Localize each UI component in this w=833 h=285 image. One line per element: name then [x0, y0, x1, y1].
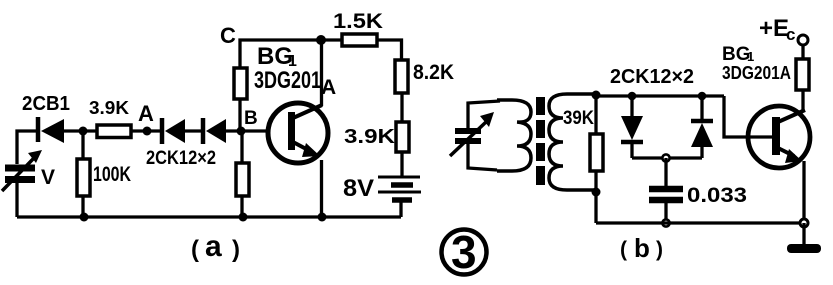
resistor collector (b)	[796, 59, 809, 90]
wire resistor to B	[238, 99, 241, 131]
diode D2 (2CK12 first)	[162, 118, 185, 144]
wire 39K top	[594, 96, 597, 134]
svg-text:3DG201A: 3DG201A	[722, 63, 791, 83]
svg-text:2CK12×2: 2CK12×2	[146, 148, 216, 169]
svg-text:100K: 100K	[93, 163, 131, 186]
node emitter / ground junction	[800, 219, 808, 227]
wire node C corner and down	[240, 40, 398, 68]
svg-text:+E: +E	[759, 15, 789, 42]
svg-text:A: A	[138, 101, 154, 126]
diode (b) right, pointing up	[691, 96, 713, 158]
wire: below capacitor V down to bottom rail	[15, 182, 18, 217]
node A	[143, 127, 152, 136]
transformer secondary winding	[549, 94, 596, 190]
node right diode top	[698, 92, 707, 101]
resistor (B to ground branch)	[236, 163, 249, 196]
diode (b) left, pointing down	[621, 96, 643, 158]
wire top rail corner to base	[724, 96, 773, 137]
wire diode to node B and transistor base	[226, 129, 269, 132]
wire 8.2K to 3.9K	[400, 93, 403, 122]
wire to ground	[802, 223, 805, 245]
wire below var cap (b)	[468, 143, 497, 170]
wire middle to capacitor	[664, 158, 667, 186]
wire B down to lower resistor	[240, 131, 243, 163]
resistor 3.9K (right branch)	[396, 122, 409, 152]
svg-text:(: (	[620, 238, 627, 261]
wire middle (diode bottoms)	[632, 156, 702, 159]
wire: variable capacitor branch top (b)	[468, 101, 500, 128]
svg-text:V: V	[41, 166, 55, 189]
wire battery to bottom rail	[399, 202, 402, 217]
svg-text:39K: 39K	[563, 108, 594, 129]
node junction (100K top)	[79, 127, 88, 136]
svg-text:3: 3	[451, 226, 477, 278]
wire lower resistor to bottom rail	[240, 196, 243, 217]
node secondary top / 39K	[592, 91, 601, 100]
wire 100K branch top	[81, 131, 84, 159]
capacitor V (variable, circuit a) plates	[5, 168, 35, 180]
svg-text:1.5K: 1.5K	[333, 10, 383, 33]
node left diode top	[628, 92, 637, 101]
top rail circuit (b)	[596, 94, 724, 97]
resistor 39K	[590, 134, 603, 171]
diode 2CB1	[38, 117, 64, 143]
svg-text:8V: 8V	[343, 175, 374, 202]
arrow of variable capacitor (b)	[450, 112, 494, 156]
wire Ec to resistor	[801, 45, 804, 59]
transistor BG1 (circuit a)	[268, 103, 328, 163]
wire capacitor to bottom rail	[664, 203, 667, 223]
node capacitor bottom	[662, 219, 669, 226]
svg-text:c: c	[786, 25, 795, 44]
node secondary bottom junction	[592, 188, 601, 197]
resistor 1.5K	[342, 34, 377, 46]
transformer primary winding	[497, 100, 531, 171]
node bottom 100K	[80, 213, 89, 222]
figure number circle	[442, 230, 487, 275]
wire 3.9K to battery	[400, 152, 403, 177]
wire: left loop top of circuit (a)	[17, 131, 38, 164]
resistor 3.9k (horizontal)	[97, 125, 131, 138]
svg-text:3DG201: 3DG201	[254, 67, 321, 94]
wire: diode 2CB1 to resistor 3.9k	[64, 129, 97, 132]
battery 8V	[378, 177, 421, 200]
wire 3.9k to node A	[131, 129, 162, 132]
svg-text:): )	[656, 238, 663, 261]
wire between diodes	[185, 129, 203, 132]
node bottom B resistor	[239, 213, 248, 222]
svg-text:(: (	[191, 236, 199, 263]
resistor 100K	[77, 159, 90, 196]
wire emitter down (b)	[802, 161, 805, 223]
wire 100K branch bottom	[81, 196, 84, 217]
arrow of variable capacitor V	[2, 150, 42, 191]
svg-text:2CK12×2: 2CK12×2	[610, 66, 694, 88]
transformer core	[536, 97, 545, 185]
capacitor variable (b) plates	[455, 131, 481, 141]
bottom rail circuit (a)	[17, 215, 401, 218]
svg-text:3.9K: 3.9K	[89, 98, 129, 118]
wire right branch down from top rail	[398, 40, 402, 60]
resistor (C to B branch)	[234, 68, 247, 99]
node: top rail junction (collector)	[316, 35, 326, 45]
svg-text:3.9K: 3.9K	[344, 126, 396, 148]
node capacitor top junction	[662, 154, 669, 161]
svg-text:a: a	[205, 230, 222, 263]
node bottom emitter	[318, 213, 327, 222]
svg-text:0.033: 0.033	[687, 184, 747, 207]
capacitor 0.033	[649, 189, 683, 200]
svg-text:B: B	[244, 108, 258, 129]
svg-text:C: C	[220, 23, 236, 48]
svg-text:8.2K: 8.2K	[413, 61, 454, 84]
wire collector vertical	[320, 40, 323, 106]
resistor 8.2K	[395, 60, 408, 93]
svg-text:b: b	[634, 233, 650, 263]
wire resistor to collector	[801, 90, 804, 111]
bottom rail circuit (b)	[596, 221, 804, 224]
transistor BG1 (circuit b)	[748, 106, 810, 168]
svg-text:A: A	[321, 76, 336, 99]
svg-text:2CB1: 2CB1	[22, 93, 70, 115]
wire emitter vertical	[320, 160, 323, 217]
diode D3 (2CK12 second)	[203, 118, 226, 144]
ground symbol	[787, 244, 821, 253]
terminal +Ec circle	[798, 35, 808, 45]
node B	[237, 127, 246, 136]
svg-text:): )	[232, 236, 240, 263]
svg-text:1: 1	[747, 49, 754, 64]
wire 39K bottom	[594, 171, 597, 223]
